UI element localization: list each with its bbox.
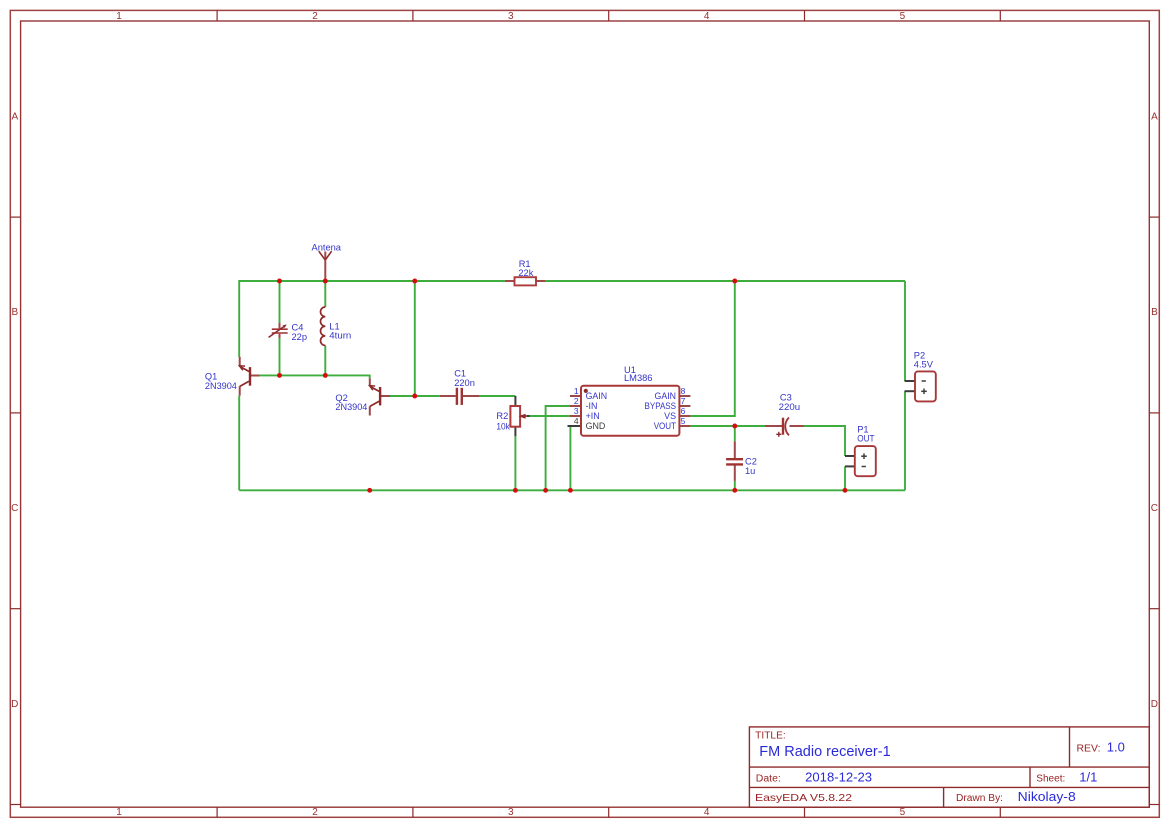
svg-text:2: 2 [574,396,579,406]
svg-text:Date:: Date: [756,774,781,785]
svg-text:2N3904: 2N3904 [335,402,367,412]
svg-text:3: 3 [508,807,514,818]
svg-text:OUT: OUT [857,434,875,444]
svg-text:+IN: +IN [586,411,600,421]
svg-text:2: 2 [312,807,318,818]
svg-text:22p: 22p [292,332,308,342]
svg-text:22k: 22k [518,268,533,278]
svg-text:Antena: Antena [312,243,342,253]
svg-text:220n: 220n [454,378,475,388]
svg-text:4: 4 [704,11,710,22]
svg-text:4turn: 4turn [329,331,351,341]
svg-text:FM Radio receiver-1: FM Radio receiver-1 [759,744,890,760]
svg-text:3: 3 [574,406,579,416]
svg-text:GND: GND [586,421,606,431]
svg-text:2N3904: 2N3904 [205,381,237,391]
svg-text:A: A [1151,111,1158,122]
svg-text:Sheet:: Sheet: [1036,774,1065,785]
svg-text:REV:: REV: [1077,743,1101,754]
svg-text:6: 6 [681,406,686,416]
svg-text:7: 7 [681,396,686,406]
svg-text:1: 1 [574,386,579,396]
svg-text:2: 2 [312,11,318,22]
svg-text:2018-12-23: 2018-12-23 [805,770,872,785]
svg-text:VOUT: VOUT [654,421,677,431]
svg-text:1/1: 1/1 [1079,770,1097,785]
svg-text:A: A [11,111,18,122]
svg-text:B: B [1151,307,1158,318]
svg-text:5: 5 [681,416,686,426]
svg-text:C2: C2 [745,456,757,466]
svg-text:Drawn By:: Drawn By: [956,793,1003,804]
svg-text:Nikolay-8: Nikolay-8 [1018,789,1076,804]
svg-text:1: 1 [116,11,122,22]
svg-text:BYPASS: BYPASS [645,401,677,411]
svg-text:GAIN: GAIN [655,391,677,401]
svg-text:VS: VS [664,411,676,421]
svg-text:C: C [11,503,18,514]
svg-text:D: D [11,699,18,710]
svg-text:3: 3 [508,11,514,22]
svg-text:4: 4 [574,416,579,426]
svg-text:GAIN: GAIN [586,391,608,401]
svg-text:C: C [1151,503,1158,514]
svg-text:TITLE:: TITLE: [755,730,786,741]
svg-text:1: 1 [116,807,122,818]
svg-text:EasyEDA V5.8.22: EasyEDA V5.8.22 [755,793,852,804]
svg-text:1u: 1u [745,466,755,476]
svg-text:4.5V: 4.5V [914,360,934,370]
svg-text:1.0: 1.0 [1107,739,1125,754]
svg-text:R2: R2 [496,411,508,421]
svg-text:-IN: -IN [586,401,598,411]
svg-text:C3: C3 [780,393,792,403]
svg-text:D: D [1151,699,1158,710]
svg-text:8: 8 [681,386,686,396]
svg-text:10k: 10k [496,421,510,431]
svg-text:220u: 220u [779,402,801,412]
svg-text:B: B [11,307,18,318]
svg-text:5: 5 [900,807,906,818]
svg-text:4: 4 [704,807,710,818]
svg-text:LM386: LM386 [624,373,653,383]
svg-text:5: 5 [900,11,906,22]
